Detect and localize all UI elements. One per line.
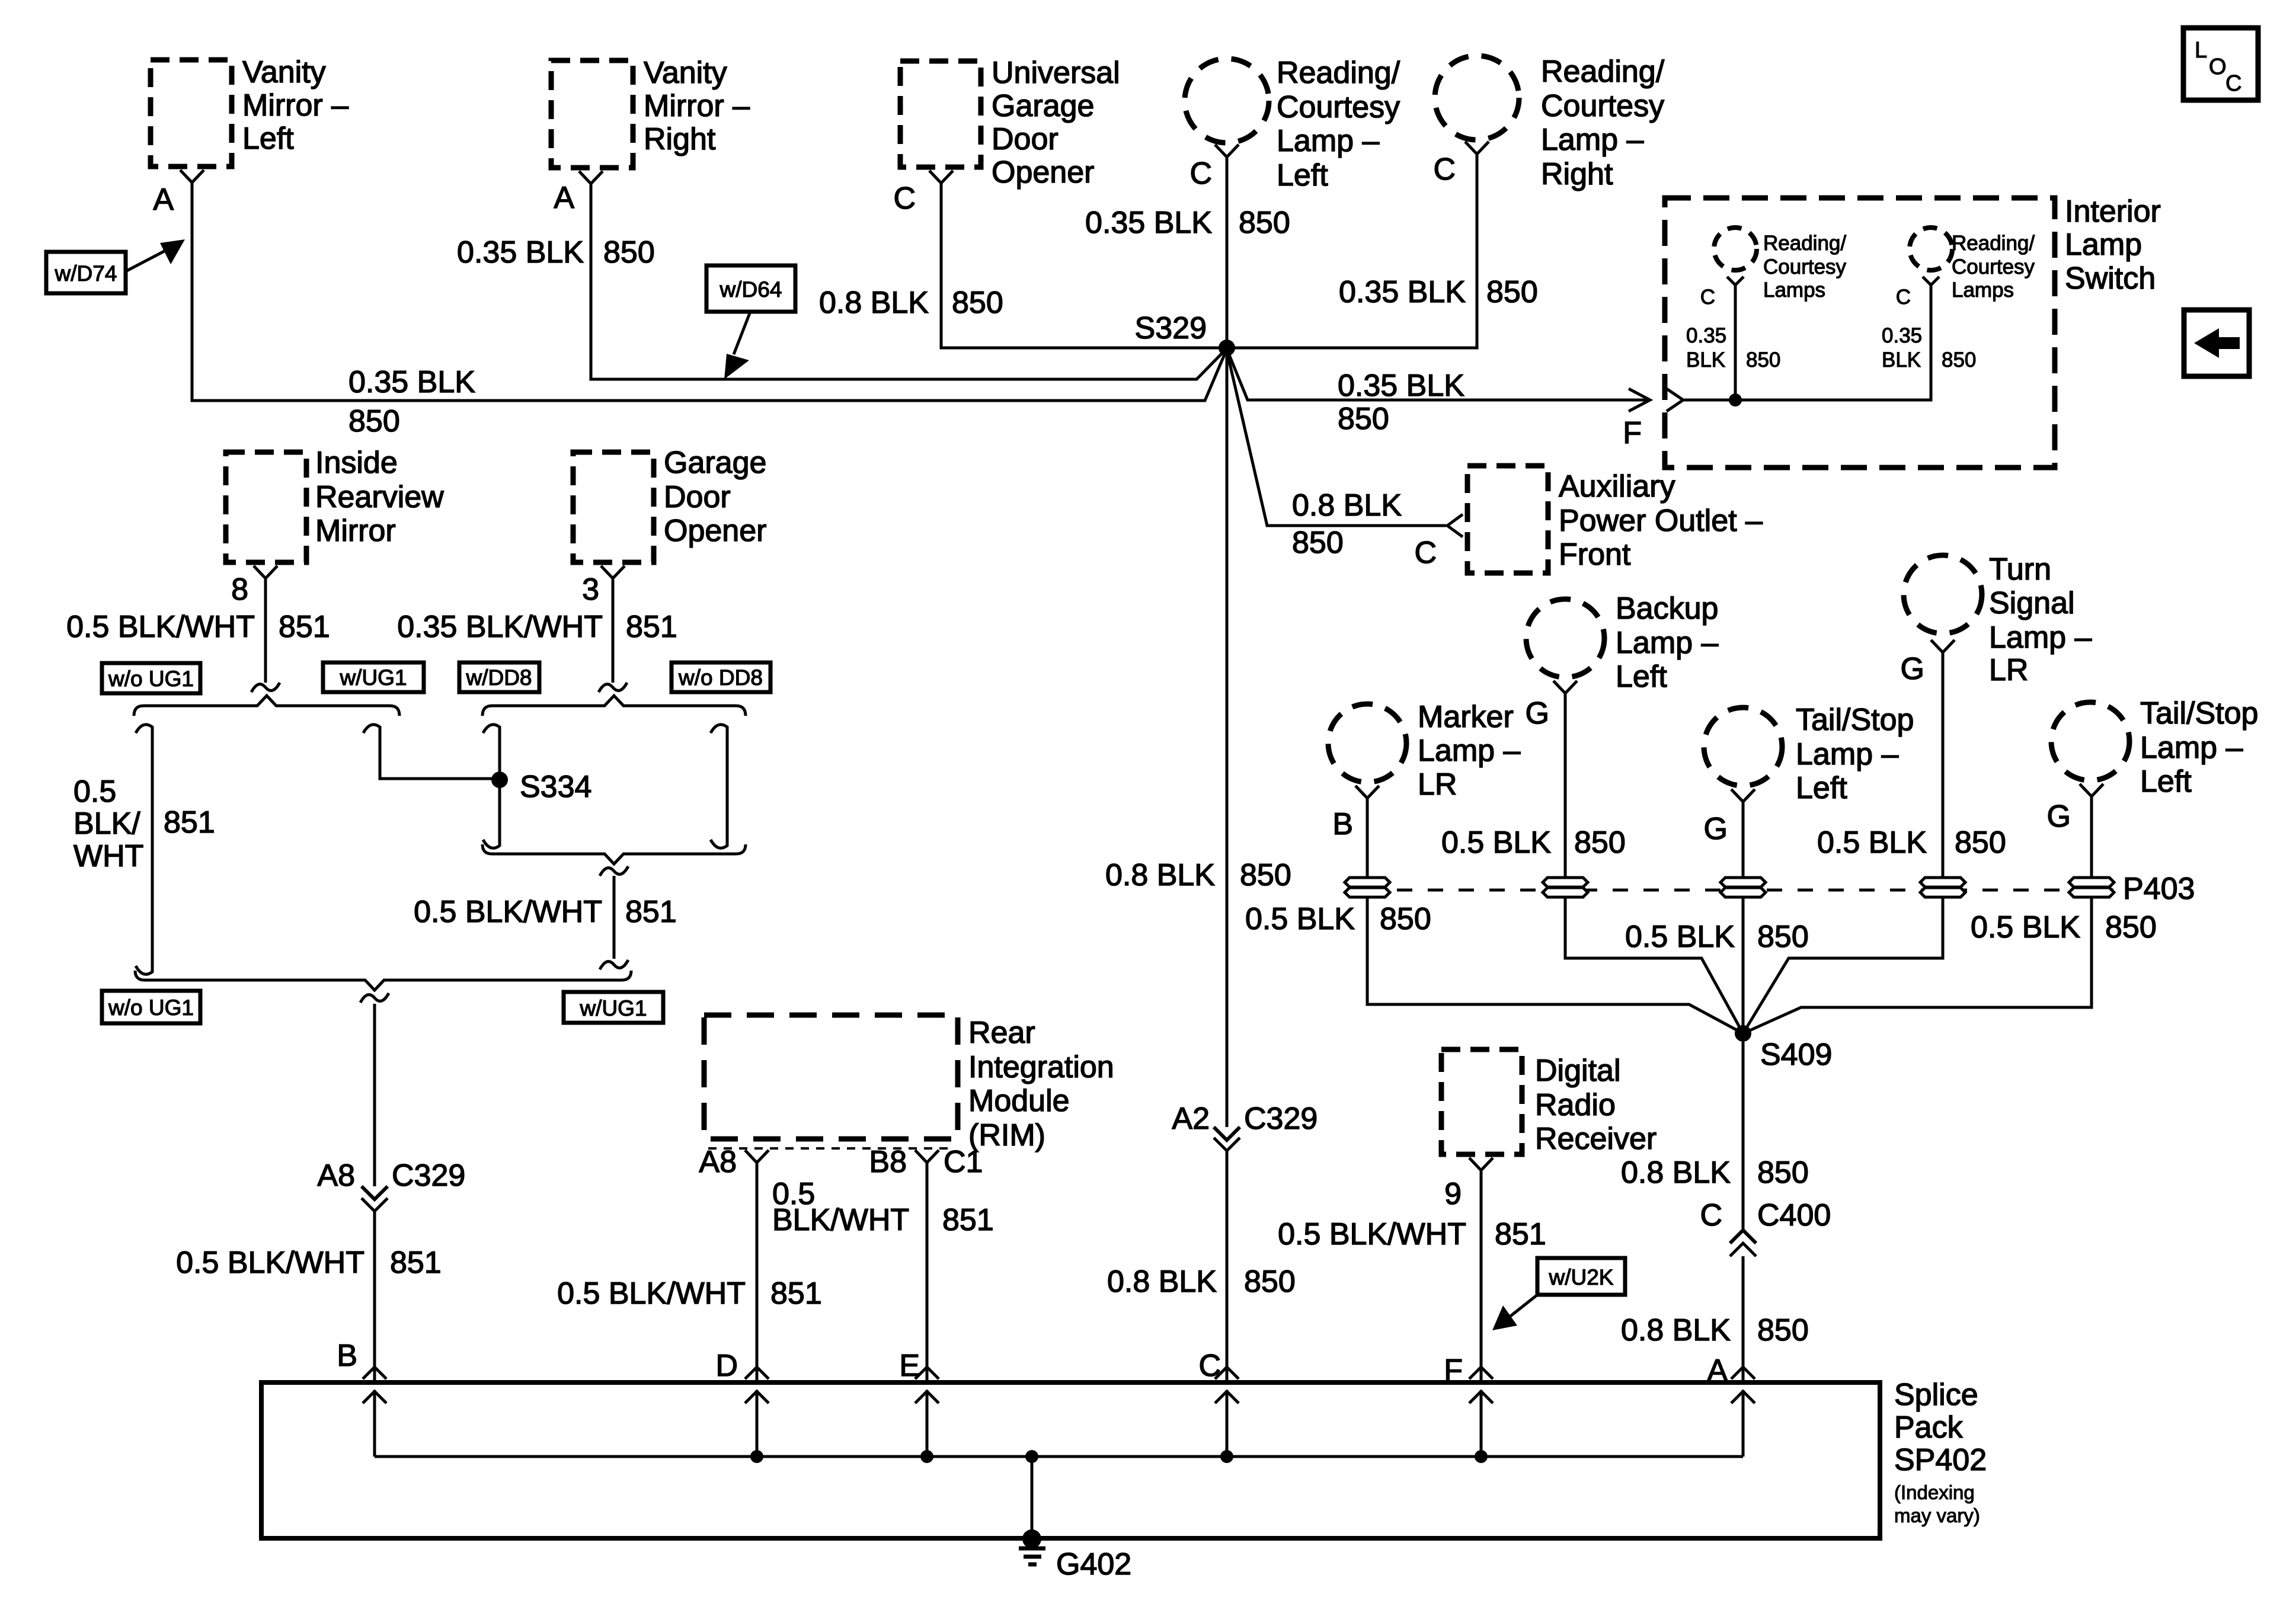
grommet P403 on tail1 wire bbox=[1721, 878, 1766, 897]
wire 850 from reading lamp left down to S329 bbox=[1226, 157, 1229, 348]
svg-text:Integration: Integration bbox=[968, 1050, 1114, 1084]
wire 851 from merge down to splice pack pin B bbox=[373, 1004, 376, 1186]
in-line connector C329 pin A2 on central wire bbox=[1172, 1102, 1318, 1151]
svg-text:851: 851 bbox=[1495, 1217, 1546, 1251]
svg-text:0.8 BLK: 0.8 BLK bbox=[1621, 1156, 1731, 1190]
internal arrow at C bbox=[1215, 1390, 1239, 1463]
svg-text:Door: Door bbox=[992, 122, 1059, 156]
wire 850 from turn signal lamp to S409 bbox=[1743, 652, 1943, 1033]
wire-option squiggle under mirror wire bbox=[251, 683, 280, 692]
svg-text:0.8 BLK: 0.8 BLK bbox=[1105, 858, 1215, 892]
svg-text:Universal: Universal bbox=[992, 56, 1120, 90]
wire 850 from tail/stop lamp 2 to S409 bbox=[1743, 796, 2092, 1033]
svg-text:w/UG1: w/UG1 bbox=[579, 996, 647, 1020]
pin 9 of digital radio receiver (Y connector) bbox=[1444, 1158, 1493, 1211]
wire 850 from Vanity Mirror Right to S329 bbox=[591, 184, 1226, 379]
component Tail/Stop Lamp Left 2 (dashed circle) bbox=[2051, 696, 2258, 799]
svg-text:Garage: Garage bbox=[664, 446, 766, 480]
svg-text:850: 850 bbox=[1380, 902, 1431, 936]
svg-text:Door: Door bbox=[664, 480, 731, 514]
pin G of backup lamp (Y connector) bbox=[1526, 681, 1577, 731]
svg-text:0.35 BLK/WHT: 0.35 BLK/WHT bbox=[397, 610, 603, 644]
svg-text:A8: A8 bbox=[699, 1145, 737, 1179]
svg-text:Opener: Opener bbox=[992, 155, 1094, 190]
leg w/DD8 (wire through S334) bbox=[483, 725, 500, 848]
svg-text:850: 850 bbox=[1338, 402, 1389, 436]
svg-text:S334: S334 bbox=[520, 770, 591, 804]
svg-text:850: 850 bbox=[1574, 825, 1626, 860]
svg-text:0.5 BLK: 0.5 BLK bbox=[1441, 825, 1551, 860]
svg-text:Left: Left bbox=[242, 121, 294, 156]
in-line connector C400 pin C on S409 wire bbox=[1700, 1198, 1831, 1256]
svg-text:Lamp –: Lamp – bbox=[1616, 626, 1719, 660]
svg-text:w/U2K: w/U2K bbox=[1549, 1265, 1614, 1289]
svg-text:B: B bbox=[337, 1339, 357, 1373]
label 0.8 BLK 850 below S409 bbox=[1621, 1156, 1809, 1190]
svg-text:0.8 BLK: 0.8 BLK bbox=[1107, 1265, 1217, 1299]
RIM connector face dashed line bbox=[708, 1147, 954, 1150]
svg-text:851: 851 bbox=[626, 610, 677, 644]
label 0.35 BLK 850 on vanity right wire bbox=[457, 235, 655, 270]
svg-text:Pack: Pack bbox=[1894, 1410, 1964, 1445]
svg-text:w/o DD8: w/o DD8 bbox=[678, 665, 763, 690]
svg-text:Lamp –: Lamp – bbox=[1541, 123, 1644, 157]
svg-text:0.5 BLK: 0.5 BLK bbox=[1817, 825, 1927, 860]
svg-text:850: 850 bbox=[2105, 910, 2157, 945]
label 0.5 BLK/WHT 851 on RIM B8 wire bbox=[772, 1177, 994, 1237]
svg-text:P403: P403 bbox=[2123, 872, 2195, 906]
wire from lamp 1 to internal junction bbox=[1734, 285, 1737, 400]
label 0.35 BLK 850 on reading lamp right wire bbox=[1339, 275, 1538, 309]
splice pack SP402 (solid box) bbox=[261, 1378, 1987, 1538]
pin B chevron at splice pack bbox=[337, 1339, 386, 1379]
leg w/o DD8 (wire) bbox=[711, 725, 727, 848]
svg-text:w/o UG1: w/o UG1 bbox=[108, 996, 194, 1020]
central wire below C329 bbox=[1226, 1151, 1229, 1382]
option tag w/o DD8 (row 1) bbox=[671, 662, 770, 692]
svg-text:9: 9 bbox=[1444, 1177, 1462, 1211]
svg-text:851: 851 bbox=[770, 1276, 822, 1311]
svg-text:850: 850 bbox=[348, 404, 400, 438]
svg-text:Lamp –: Lamp – bbox=[2140, 731, 2243, 765]
label 0.5 BLK 850 on tail2 wire bbox=[1971, 910, 2157, 945]
svg-text:G402: G402 bbox=[1056, 1547, 1131, 1582]
grommet P403 on turn signal wire bbox=[1920, 878, 1965, 897]
svg-text:(Indexing: (Indexing bbox=[1894, 1481, 1975, 1503]
svg-text:C: C bbox=[1198, 1349, 1221, 1383]
internal arrow at D bbox=[745, 1390, 769, 1463]
component Digital Radio Receiver (dashed box) bbox=[1441, 1049, 1657, 1156]
svg-text:Backup: Backup bbox=[1616, 591, 1718, 626]
component Turn Signal Lamp LR (dashed circle) bbox=[1904, 552, 2092, 687]
svg-text:850: 850 bbox=[603, 235, 655, 270]
label 0.5 BLK/WHT 851 on mirror wire bbox=[66, 610, 330, 644]
component Garage Door Opener (dashed box) bbox=[573, 446, 766, 562]
pin A of Vanity Mirror Left (Y connector) bbox=[153, 170, 204, 217]
splice S334 (junction dot) bbox=[491, 770, 591, 804]
central wire 850 from S329 down to splice pack pin C bbox=[1226, 356, 1229, 1127]
svg-text:Garage: Garage bbox=[992, 89, 1094, 123]
wire 850 from reading lamp right to S329 bbox=[1227, 154, 1477, 348]
wire-option squiggle under final merge brace bbox=[360, 993, 389, 1003]
svg-text:A8: A8 bbox=[317, 1158, 355, 1193]
label 0.5 BLK/WHT 851 on w/o UG1 leg bbox=[73, 774, 215, 873]
svg-text:B: B bbox=[1332, 807, 1353, 841]
svg-text:851: 851 bbox=[942, 1203, 994, 1237]
internal arrow at B bbox=[363, 1390, 386, 1457]
svg-text:Left: Left bbox=[2140, 764, 2192, 799]
component Backup Lamp Left (dashed circle) bbox=[1526, 591, 1719, 694]
component Marker Lamp LR (dashed circle) bbox=[1328, 700, 1521, 802]
pin C of Reading/Courtesy Lamp Left (Y connector) bbox=[1189, 145, 1239, 191]
svg-text:Reading/: Reading/ bbox=[1541, 55, 1665, 89]
svg-text:850: 850 bbox=[1486, 275, 1538, 309]
svg-text:851: 851 bbox=[164, 805, 215, 840]
svg-text:C329: C329 bbox=[392, 1158, 465, 1193]
option tag w/o UG1 (row 2) bbox=[102, 991, 200, 1023]
grommet P403 on tail2 wire bbox=[2069, 878, 2114, 897]
label 0.5 BLK/WHT 851 on radio wire bbox=[1278, 1217, 1546, 1251]
wire 851 from inside rearview mirror bbox=[264, 578, 267, 683]
svg-text:F: F bbox=[1623, 416, 1642, 450]
svg-text:w/D64: w/D64 bbox=[720, 277, 782, 302]
pin 3 of garage door opener (Y connector) bbox=[582, 566, 625, 607]
component Interior Lamp Switch (dashed box) bbox=[1665, 194, 2161, 468]
final merge brace UG1 bbox=[135, 971, 631, 990]
lamp Reading/Courtesy Lamps 2 inside switch (dashed circle) bbox=[1910, 228, 2035, 302]
svg-text:Lamp –: Lamp – bbox=[1418, 734, 1521, 768]
pin C of lamp 2 bbox=[1896, 277, 1939, 309]
svg-text:Left: Left bbox=[1796, 771, 1847, 805]
svg-text:Left: Left bbox=[1616, 660, 1667, 694]
svg-text:0.35 BLK: 0.35 BLK bbox=[1339, 275, 1466, 309]
svg-text:BLK: BLK bbox=[1882, 348, 1921, 372]
pin A8 of RIM (Y connector) bbox=[699, 1145, 769, 1179]
svg-text:0.5 BLK: 0.5 BLK bbox=[1625, 920, 1735, 954]
internal arrow at F bbox=[1469, 1390, 1493, 1463]
svg-text:Switch: Switch bbox=[2065, 261, 2156, 296]
svg-text:850: 850 bbox=[1240, 858, 1291, 892]
component Vanity Mirror Left (dashed box) bbox=[151, 55, 348, 167]
svg-text:Courtesy: Courtesy bbox=[1952, 255, 2035, 279]
label 0.35 BLK 850 inside switch lamp2 bbox=[1882, 324, 1976, 372]
svg-text:Receiver: Receiver bbox=[1535, 1122, 1657, 1156]
option tag w/UG1 (row 1) bbox=[323, 662, 424, 692]
pin E chevron at splice pack bbox=[899, 1349, 939, 1383]
merge brace DD8 bbox=[482, 844, 746, 864]
label 0.5 BLK 850 under marker grommet bbox=[1245, 902, 1431, 936]
label 0.8 BLK 850 on garage opener wire bbox=[819, 286, 1003, 320]
svg-text:Reading/: Reading/ bbox=[1277, 56, 1400, 90]
ground G402 symbol bbox=[1019, 1547, 1131, 1582]
svg-text:Mirror –: Mirror – bbox=[644, 89, 750, 123]
svg-text:0.5 BLK/WHT: 0.5 BLK/WHT bbox=[176, 1246, 364, 1280]
component Inside Rearview Mirror (dashed box) bbox=[226, 446, 444, 562]
pin C chevron at splice pack bbox=[1198, 1349, 1239, 1383]
svg-text:BLK: BLK bbox=[1686, 348, 1725, 372]
svg-text:Mirror –: Mirror – bbox=[242, 88, 348, 123]
option tag w/UG1 (row 2) bbox=[564, 992, 663, 1023]
svg-text:C: C bbox=[1700, 1198, 1722, 1233]
svg-text:851: 851 bbox=[279, 610, 330, 644]
wire 850 from S329 to Interior Lamp Switch pin F bbox=[1227, 349, 1683, 450]
svg-text:Radio: Radio bbox=[1535, 1088, 1616, 1122]
svg-text:851: 851 bbox=[625, 895, 677, 929]
grommet P403 on backup wire bbox=[1543, 878, 1588, 897]
svg-text:S409: S409 bbox=[1760, 1038, 1832, 1072]
svg-text:0.35 BLK: 0.35 BLK bbox=[1085, 206, 1212, 240]
splice S329 (junction dot) bbox=[1135, 311, 1235, 356]
wire-option squiggle under DD8 merge bbox=[600, 866, 628, 876]
svg-text:Mirror: Mirror bbox=[315, 514, 396, 548]
svg-text:A: A bbox=[554, 181, 574, 215]
leg w/UG1 (wire to S334) bbox=[363, 725, 500, 779]
label 0.5 BLK 850 under tail1 grommet bbox=[1625, 920, 1809, 954]
svg-text:G: G bbox=[1901, 652, 1924, 686]
svg-text:C400: C400 bbox=[1757, 1198, 1831, 1233]
svg-text:0.5: 0.5 bbox=[73, 774, 116, 809]
svg-text:A2: A2 bbox=[1172, 1102, 1210, 1136]
internal junction dot inside interior lamp switch bbox=[1729, 393, 1742, 406]
svg-text:Vanity: Vanity bbox=[644, 56, 727, 90]
pin C of Universal Garage Door Opener (Y connector) bbox=[893, 171, 953, 216]
component Auxiliary Power Outlet Front (dashed box) bbox=[1467, 466, 1763, 573]
pin B8/C1 of RIM (Y connector) bbox=[869, 1145, 983, 1179]
svg-text:Lamp –: Lamp – bbox=[1277, 124, 1380, 158]
label 0.35 BLK 850 on reading lamp left wire bbox=[1085, 206, 1290, 240]
svg-text:850: 850 bbox=[1757, 1313, 1809, 1347]
label 0.35 BLK 850 inside switch lamp1 bbox=[1686, 324, 1780, 372]
svg-text:G: G bbox=[1704, 812, 1728, 846]
wire 850 from backup lamp to S409 bbox=[1565, 693, 1743, 1033]
svg-text:851: 851 bbox=[390, 1246, 442, 1280]
label 0.8 BLK 850 on central wire lower bbox=[1107, 1265, 1296, 1299]
svg-text:C: C bbox=[893, 181, 916, 216]
svg-text:850: 850 bbox=[1746, 348, 1780, 372]
option tag w/D74 bbox=[46, 239, 185, 293]
pin A chevron at splice pack bbox=[1707, 1353, 1755, 1388]
label 0.5 BLK/WHT 851 on merged wire bbox=[414, 895, 677, 929]
pin F chevron at splice pack bbox=[1444, 1353, 1493, 1388]
wire 851 from RIM B8 to splice pack pin E bbox=[926, 1163, 929, 1382]
pin 8 of inside rearview mirror (Y connector) bbox=[231, 566, 277, 607]
svg-text:0.35 BLK: 0.35 BLK bbox=[348, 365, 475, 399]
svg-text:850: 850 bbox=[1955, 825, 2006, 860]
wire 850 from tail/stop lamp 1 straight to S409 bbox=[1742, 802, 1745, 1033]
svg-text:C329: C329 bbox=[1244, 1102, 1318, 1136]
internal bus wire of splice pack bbox=[375, 1455, 1743, 1458]
pin C of lamp 1 bbox=[1700, 277, 1744, 309]
svg-text:A: A bbox=[153, 183, 174, 217]
pin C of Reading/Courtesy Lamp Right (Y connector) bbox=[1433, 142, 1489, 187]
pin D chevron at splice pack bbox=[715, 1349, 769, 1383]
internal arrow at A bbox=[1731, 1390, 1755, 1457]
left-arrow legend box right side bbox=[2184, 310, 2249, 376]
svg-text:w/D74: w/D74 bbox=[55, 261, 117, 286]
svg-text:O: O bbox=[2209, 55, 2227, 79]
svg-text:Right: Right bbox=[644, 122, 716, 156]
svg-text:Tail/Stop: Tail/Stop bbox=[2140, 696, 2258, 731]
svg-text:Lamp –: Lamp – bbox=[1796, 737, 1899, 772]
wire 851 from DD8 merge down bbox=[613, 876, 616, 959]
label 0.5 BLK 850 on turn signal wire bbox=[1817, 825, 2006, 860]
label 0.5 BLK 850 on backup wire bbox=[1441, 825, 1626, 860]
svg-text:850: 850 bbox=[1942, 348, 1976, 372]
svg-text:Opener: Opener bbox=[664, 514, 766, 548]
svg-text:0.35 BLK: 0.35 BLK bbox=[457, 235, 584, 270]
svg-text:Reading/: Reading/ bbox=[1763, 232, 1846, 255]
svg-text:0.5 BLK: 0.5 BLK bbox=[1245, 902, 1355, 936]
pin G of tail/stop lamp 1 (Y connector) bbox=[1704, 789, 1755, 846]
pin G of tail/stop lamp 2 (Y connector) bbox=[2047, 784, 2103, 834]
svg-text:850: 850 bbox=[1757, 1156, 1809, 1190]
svg-text:SP402: SP402 bbox=[1894, 1443, 1987, 1477]
wire 851 below C329 to splice pack bbox=[373, 1211, 376, 1382]
svg-text:850: 850 bbox=[1239, 206, 1290, 240]
svg-text:Lamps: Lamps bbox=[1952, 279, 2014, 302]
svg-text:0.8 BLK: 0.8 BLK bbox=[1292, 488, 1402, 523]
svg-text:Front: Front bbox=[1559, 537, 1631, 572]
svg-text:C1: C1 bbox=[944, 1145, 983, 1179]
svg-text:Module: Module bbox=[968, 1084, 1070, 1118]
wire 850 from marker lamp to S409 bbox=[1367, 798, 1743, 1033]
wire 850 from S409 down bbox=[1742, 1042, 1745, 1230]
label 0.8 BLK 850 on aux outlet wire bbox=[1292, 488, 1402, 560]
svg-text:850: 850 bbox=[1757, 920, 1809, 954]
svg-text:Right: Right bbox=[1541, 157, 1613, 191]
svg-text:D: D bbox=[715, 1349, 738, 1383]
ground branch to G402 bbox=[1022, 1450, 1041, 1548]
svg-text:L: L bbox=[2195, 38, 2207, 63]
svg-text:S329: S329 bbox=[1135, 311, 1207, 345]
svg-text:G: G bbox=[1526, 696, 1549, 731]
LOC legend box top right bbox=[2183, 28, 2258, 100]
wire 850 from garage door opener to S329 bbox=[941, 183, 1227, 348]
svg-text:E: E bbox=[899, 1349, 920, 1383]
svg-text:C: C bbox=[1700, 286, 1715, 309]
svg-text:C: C bbox=[1896, 286, 1911, 309]
component Reading/Courtesy Lamp Left (dashed circle) bbox=[1185, 56, 1400, 193]
svg-text:Turn: Turn bbox=[1989, 552, 2051, 587]
svg-text:C: C bbox=[2225, 71, 2241, 96]
wire 850 below C400 to splice pack pin A bbox=[1742, 1256, 1745, 1382]
pass-through P403 dashed line bbox=[1366, 872, 2195, 906]
svg-text:Courtesy: Courtesy bbox=[1277, 90, 1400, 124]
option tag w/o UG1 (row 1) bbox=[102, 663, 200, 693]
svg-text:Lamp –: Lamp – bbox=[1989, 620, 2092, 655]
leg w/o UG1 (wire) bbox=[136, 725, 152, 974]
svg-text:Inside: Inside bbox=[315, 446, 398, 480]
svg-text:850: 850 bbox=[1292, 526, 1344, 560]
svg-text:WHT: WHT bbox=[73, 839, 143, 873]
wire-option squiggle under garage opener wire bbox=[599, 683, 627, 692]
svg-text:LR: LR bbox=[1418, 767, 1457, 802]
svg-text:0.35: 0.35 bbox=[1686, 324, 1726, 347]
svg-text:LR: LR bbox=[1989, 653, 2028, 687]
svg-text:w/UG1: w/UG1 bbox=[339, 665, 407, 690]
option tag w/DD8 (row 1) bbox=[459, 662, 539, 692]
svg-text:0.5 BLK/WHT: 0.5 BLK/WHT bbox=[1278, 1217, 1466, 1251]
label 0.5 BLK/WHT 851 on RIM A8 wire bbox=[557, 1276, 822, 1311]
svg-text:Signal: Signal bbox=[1989, 586, 2075, 620]
option brace UG1 split bbox=[134, 696, 399, 716]
wire 851 from digital radio receiver to splice pack pin F bbox=[1480, 1170, 1483, 1382]
in-line connector C329 pin A8 on left wire bbox=[317, 1158, 465, 1211]
component Rear Integration Module RIM (dashed box) bbox=[704, 1015, 1114, 1153]
svg-text:850: 850 bbox=[952, 286, 1003, 320]
label 0.35 BLK 850 on wire to interior lamp switch bbox=[1338, 369, 1464, 436]
svg-text:C: C bbox=[1189, 156, 1212, 191]
svg-text:may vary): may vary) bbox=[1894, 1505, 1980, 1526]
component Reading/Courtesy Lamp Right (dashed circle) bbox=[1435, 55, 1665, 191]
svg-text:C: C bbox=[1433, 152, 1456, 187]
svg-text:Vanity: Vanity bbox=[242, 55, 326, 89]
svg-text:Left: Left bbox=[1277, 158, 1328, 193]
svg-text:850: 850 bbox=[1244, 1265, 1296, 1299]
svg-text:0.35: 0.35 bbox=[1882, 324, 1922, 347]
svg-text:Auxiliary: Auxiliary bbox=[1559, 469, 1675, 504]
svg-text:0.5 BLK: 0.5 BLK bbox=[1971, 910, 2080, 945]
svg-text:BLK/: BLK/ bbox=[73, 806, 140, 841]
option tag w/U2K bbox=[1492, 1258, 1625, 1330]
svg-text:w/o UG1: w/o UG1 bbox=[108, 667, 194, 691]
label 0.35 BLK/WHT 851 on garage opener wire bbox=[397, 610, 677, 644]
grommet P403 on marker wire bbox=[1345, 878, 1390, 897]
svg-text:0.35 BLK: 0.35 BLK bbox=[1338, 369, 1464, 403]
svg-text:Lamps: Lamps bbox=[1763, 279, 1825, 302]
splice S409 (junction dot) bbox=[1735, 1025, 1832, 1072]
pin A of Vanity Mirror Right (Y connector) bbox=[554, 171, 603, 215]
svg-text:C: C bbox=[1414, 536, 1437, 570]
svg-text:BLK/WHT: BLK/WHT bbox=[772, 1203, 909, 1237]
svg-text:w/DD8: w/DD8 bbox=[465, 665, 532, 690]
lamp Reading/Courtesy Lamps 1 inside switch (dashed circle) bbox=[1714, 228, 1847, 302]
svg-text:8: 8 bbox=[231, 572, 248, 607]
svg-text:0.8 BLK: 0.8 BLK bbox=[1621, 1313, 1731, 1347]
option tag w/D64 bbox=[706, 265, 795, 379]
svg-text:0.5 BLK/WHT: 0.5 BLK/WHT bbox=[66, 610, 255, 644]
svg-text:Courtesy: Courtesy bbox=[1763, 255, 1847, 279]
wire 851 from garage door opener bbox=[612, 578, 615, 683]
svg-text:Lamp: Lamp bbox=[2065, 228, 2142, 262]
label 0.8 BLK 850 above splice pack pin A bbox=[1621, 1313, 1809, 1347]
svg-text:Tail/Stop: Tail/Stop bbox=[1796, 703, 1914, 737]
svg-text:B8: B8 bbox=[869, 1145, 907, 1179]
svg-text:3: 3 bbox=[582, 572, 599, 607]
svg-text:0.5 BLK/WHT: 0.5 BLK/WHT bbox=[557, 1276, 746, 1311]
label 0.5 BLK/WHT 851 lower left wire bbox=[176, 1246, 442, 1280]
wire from lamp 2 down to internal junction bbox=[1683, 285, 1931, 400]
svg-text:Power Outlet –: Power Outlet – bbox=[1559, 504, 1763, 538]
wire 850 from S329 to Auxiliary Power Outlet bbox=[1227, 351, 1463, 570]
option brace DD8 split bbox=[482, 696, 746, 716]
component Universal Garage Door Opener (dashed box) bbox=[900, 56, 1120, 190]
label 0.8 BLK 850 on central wire upper bbox=[1105, 858, 1291, 892]
svg-text:0.5 BLK/WHT: 0.5 BLK/WHT bbox=[414, 895, 602, 929]
svg-text:Splice: Splice bbox=[1894, 1378, 1978, 1412]
component Vanity Mirror Right (dashed box) bbox=[551, 56, 750, 168]
svg-text:Rear: Rear bbox=[968, 1016, 1035, 1050]
svg-text:G: G bbox=[2047, 799, 2071, 834]
wire 851 from RIM A8 to splice pack pin D bbox=[756, 1163, 759, 1382]
wire-option squiggle above final merge brace bbox=[600, 960, 628, 969]
internal arrow at E bbox=[915, 1390, 939, 1463]
label 0.35 BLK 850 on long horizontal wire bbox=[348, 365, 475, 438]
component Tail/Stop Lamp Left 1 (dashed circle) bbox=[1704, 703, 1914, 805]
svg-text:Digital: Digital bbox=[1535, 1054, 1621, 1088]
svg-text:Marker: Marker bbox=[1418, 700, 1514, 734]
svg-text:Interior: Interior bbox=[2065, 194, 2161, 229]
